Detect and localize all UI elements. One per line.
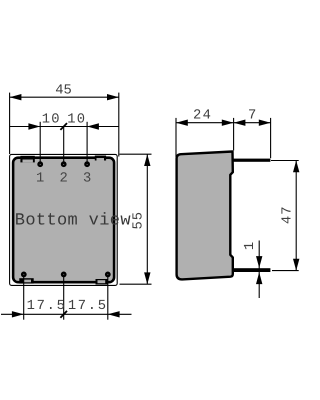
dim 47: extension line top [271, 160, 299, 162]
dim 7: arrow left [234, 120, 246, 126]
body outline (bottom view, outer thin rect) [10, 154, 118, 285]
dim 1: arrow up (below pin) [256, 272, 262, 284]
dim 45: dimension line [10, 96, 119, 98]
dim 47: extension line bottom [272, 270, 299, 272]
dim 17.5 17.5: arrow at right (outside, pointing left) [108, 311, 120, 317]
svg-text:10: 10 [67, 113, 86, 128]
svg-text:1: 1 [243, 242, 258, 250]
dim 10 10: extension line pin2 [63, 127, 65, 165]
dim 24: arrow right [222, 120, 234, 126]
dim 1: dimension line vertical [258, 241, 260, 299]
dim 17.5 17.5: extension line left [23, 275, 25, 320]
svg-text:3: 3 [83, 171, 91, 186]
dim 7: dimension line [234, 122, 271, 124]
bottom pin middle [62, 273, 65, 276]
svg-text:10: 10 [42, 113, 61, 128]
notch top-right [95, 156, 106, 161]
dim 10 10: arrow at pin3 (outside, pointing left) [87, 123, 99, 129]
bottom pin right [106, 273, 109, 276]
bottom pin left [22, 273, 25, 276]
side view body [177, 152, 233, 280]
svg-text:7: 7 [248, 109, 256, 124]
dim 45: arrow left [10, 94, 22, 100]
dim 10 10: extension line pin1 [39, 122, 41, 164]
dim 45: arrow right [107, 94, 119, 100]
body (bottom view, inner thick rounded rect, gray fill) [13, 158, 114, 283]
notch top-left [20, 156, 34, 163]
side view bottom pin [233, 268, 270, 272]
pin 1 (top) [39, 163, 42, 166]
svg-text:47: 47 [281, 206, 296, 225]
dim 1: arrow down (above pin) [256, 256, 262, 268]
dim 45: extension line left [9, 93, 11, 154]
dim 24: dimension line [176, 122, 234, 124]
dim 55: arrow top [144, 154, 150, 166]
dim 45: extension line right [118, 93, 120, 157]
dim 55: dimension line [146, 154, 148, 284]
dim 47: arrow top [293, 161, 299, 173]
dim 24: arrow left [176, 120, 188, 126]
svg-text:17.5: 17.5 [68, 299, 108, 314]
dim 10 10: extension line pin3 [86, 122, 88, 164]
dim 17.5 17.5: extension line right [107, 275, 109, 320]
svg-text:17.5: 17.5 [27, 299, 67, 314]
dim 17.5 17.5: arrow at left (outside, pointing right) [12, 311, 24, 317]
dim 55: arrow bottom [144, 272, 150, 284]
svg-text:2: 2 [60, 171, 68, 186]
dim 17.5 17.5: extension line middle [63, 275, 65, 320]
dim 10 10: oblique tick at pin2 [60, 123, 67, 130]
dim 55: extension line top [120, 153, 152, 155]
dim 10 10: dimension line with tails [10, 126, 119, 128]
svg-text:24: 24 [193, 109, 212, 124]
dim 47: dimension line [295, 161, 297, 271]
notch bottom-right [96, 279, 108, 285]
dim 47: arrow bottom [293, 259, 299, 271]
dim 24/7: extension line left [175, 118, 177, 157]
pin 2 (top) [62, 163, 65, 166]
dim 10 10: arrow at pin1 (outside, pointing right) [28, 123, 40, 129]
dim 55: extension line bottom [120, 283, 152, 285]
side view top pin [233, 159, 270, 162]
dim 7: arrow right [259, 120, 271, 126]
svg-text:1: 1 [36, 171, 44, 186]
svg-text:55: 55 [132, 211, 147, 230]
dim 17.5 17.5: dimension line with tails [1, 313, 132, 315]
dim 24/7: extension line middle [233, 118, 235, 151]
svg-text:Bottom view: Bottom view [15, 212, 132, 231]
svg-text:45: 45 [55, 84, 72, 99]
notch bottom-left [19, 278, 33, 283]
dim 17.5 17.5: oblique tick at middle [60, 311, 67, 318]
dim 24/7: extension line right [270, 118, 272, 158]
pin 3 (top) [85, 163, 88, 166]
